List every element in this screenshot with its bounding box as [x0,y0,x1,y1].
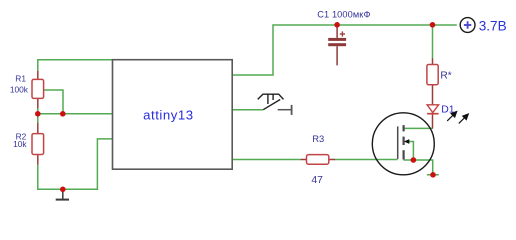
svg-text:47: 47 [311,175,323,186]
svg-text:C1 1000мкФ: C1 1000мкФ [317,10,370,20]
svg-text:10k: 10k [13,139,27,149]
svg-text:attiny13: attiny13 [143,107,194,122]
svg-text:R*: R* [440,70,451,81]
svg-text:D1: D1 [441,105,455,116]
svg-text:R1: R1 [15,74,26,84]
svg-text:3.7В: 3.7В [479,18,507,33]
svg-text:100k: 100k [10,84,29,94]
svg-text:R3: R3 [312,133,324,144]
